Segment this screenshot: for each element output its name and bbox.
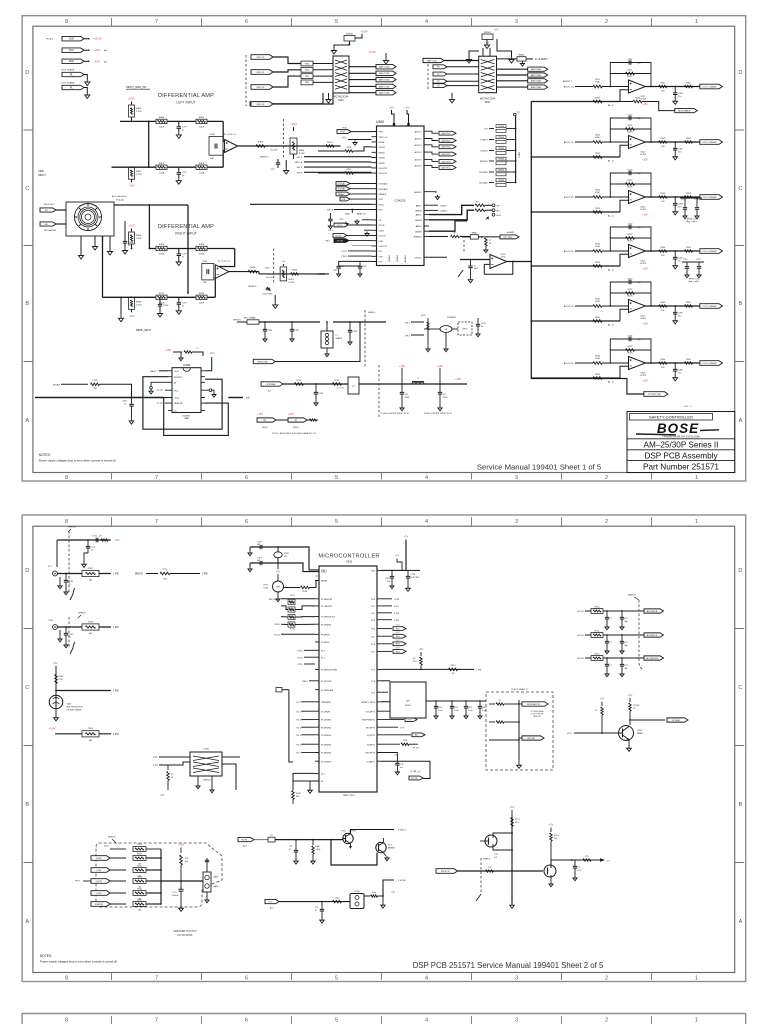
mute run wire (grey lead)	[254, 839, 268, 841]
capacitor on rail (left lower) 2n	[178, 167, 180, 172]
pullup resistor R343 (U302 left)	[288, 614, 295, 619]
svg-text:47n: 47n	[678, 151, 681, 153]
resistor R306 2.21K boxed	[131, 102, 133, 105]
svg-text:R?60: R?60	[297, 380, 303, 382]
output wire (stage 1)	[645, 86, 700, 88]
svg-text:SHIELD +: SHIELD +	[260, 157, 271, 159]
output resistor R341 100	[659, 85, 667, 87]
svg-text:R?74: R?74	[554, 835, 559, 837]
op-amp minus riser (stage 6)	[620, 366, 629, 378]
row wire to 1 PW	[57, 573, 111, 575]
svg-text:LRCKA D: LRCKA D	[479, 171, 488, 174]
svg-text:100: 100	[554, 838, 557, 840]
svg-text:C?60: C?60	[319, 393, 324, 395]
svg-text:OUT 1 L/NEAR: OUT 1 L/NEAR	[703, 85, 717, 88]
svg-text:BEAD: BEAD	[472, 232, 478, 235]
speaker row C&PW resistor	[110, 880, 126, 882]
feedback loop (stage 1)	[610, 63, 651, 87]
svg-text:+15V(R): +15V(R)	[336, 388, 344, 390]
svg-text:-15V: -15V	[94, 59, 100, 63]
svg-text:+15V: +15V	[455, 377, 462, 381]
svg-text:NC 2: NC 2	[296, 711, 301, 713]
connector J301 (top-left input)	[62, 48, 84, 52]
svg-text:VCC: VCC	[174, 390, 179, 392]
svg-text:ADJUSTABLE: ADJUSTABLE	[678, 110, 691, 113]
svg-text:C139: C139	[481, 323, 486, 325]
ground (buffer B below)	[451, 93, 453, 97]
svg-text:DC UN: DC UN	[411, 778, 418, 780]
svg-text:2.2K: 2.2K	[59, 679, 64, 681]
svg-text:C?07: C?07	[69, 634, 75, 636]
svg-text:8: 8	[65, 1018, 68, 1024]
inductor pack L306 4-bead box	[321, 331, 333, 348]
svg-text:ST/LR: ST/LR	[379, 225, 385, 227]
shield dashed line (left)	[282, 119, 284, 157]
svg-text:C341: C341	[122, 401, 128, 403]
feedback resistor R325 88.2K	[626, 292, 635, 295]
svg-text:39p: 39p	[625, 645, 628, 647]
svg-text:PICKUP TRANS: PICKUP TRANS	[67, 708, 82, 711]
svg-text:R?65: R?65	[137, 888, 143, 890]
svg-text:R?62: R?62	[137, 853, 143, 855]
wire left-out to U300	[294, 145, 341, 147]
svg-text:Avg + adj 11: Avg + adj 11	[689, 280, 701, 283]
svg-text:C343: C343	[678, 204, 684, 206]
svg-text:600: 600	[89, 740, 93, 742]
resistor R315 453K (stage 5 input)	[575, 305, 593, 307]
svg-text:DATALK: DATALK	[379, 193, 387, 196]
svg-text:NC 5: NC 5	[296, 735, 301, 737]
svg-text:NC 7: NC 7	[296, 753, 301, 755]
svg-text:C?1: C?1	[289, 846, 292, 848]
svg-text:STB: STB	[379, 199, 384, 201]
output connector OUT 1	[700, 84, 723, 89]
svg-text:OFF-Y2: OFF-Y2	[256, 87, 265, 89]
resistor R301 1.00K	[156, 165, 167, 169]
ground (C339)	[468, 278, 473, 283]
svg-text:2: 2	[605, 19, 608, 25]
svg-text:R?: R?	[270, 835, 272, 837]
connector SMP OUT (buffer B)	[423, 58, 444, 62]
svg-text:MULTIFUNCTION: MULTIFUNCTION	[67, 707, 84, 709]
resistor R309 2.21K boxed	[129, 297, 135, 309]
wire P301 to series resistor	[273, 70, 301, 72]
Q306 emitter ground	[628, 740, 630, 746]
svg-text:+AOUT4-L: +AOUT4-L	[441, 153, 450, 156]
svg-text:C332: C332	[353, 331, 358, 333]
svg-text:R333: R333	[595, 208, 601, 210]
resistor RQ2 vertical	[629, 698, 631, 702]
jack ground 2	[109, 236, 111, 249]
wire to OPT GND tag	[478, 236, 500, 238]
svg-text:2n: 2n	[128, 245, 130, 247]
CDR input jack J300 concentric circles	[75, 204, 102, 231]
capacitor C304 near jack	[124, 221, 126, 241]
row 3 stub	[489, 739, 519, 741]
svg-text:R317: R317	[159, 293, 165, 295]
svg-text:88.2K: 88.2K	[627, 296, 633, 298]
output capacitor C345 47n	[674, 305, 676, 307]
speaker row L&PW resistor	[110, 857, 126, 859]
right-side net connector boxes	[381, 598, 392, 600]
speaker connector L-PW	[91, 868, 110, 873]
wire SMP OUT to buffer A	[271, 93, 323, 104]
svg-text:1 PG: 1 PG	[400, 727, 405, 729]
rail wire (left lower)	[112, 166, 224, 168]
power label +5V (reset)	[277, 563, 279, 569]
svg-text:Pick-Up: Pick-Up	[116, 200, 124, 202]
svg-text:GEOS/PT3: GEOS/PT3	[366, 727, 375, 729]
svg-text:R309: R309	[136, 301, 142, 303]
svg-text:AIN/3V T: AIN/3V T	[563, 80, 572, 83]
svg-text:47p: 47p	[637, 227, 641, 229]
resistor R331 on SDOUT1	[345, 172, 353, 174]
output connector OUT 3	[700, 195, 723, 200]
svg-text:MP: MP	[497, 205, 501, 207]
svg-text:1.00K: 1.00K	[159, 254, 165, 256]
svg-text:XTB: XTB	[379, 256, 384, 258]
svg-text:SHT + 1: SHT + 1	[684, 406, 693, 408]
output resistor R346 100	[659, 362, 667, 364]
tag SPKR GND	[253, 359, 275, 363]
svg-text:RIGHT INPUT: RIGHT INPUT	[175, 232, 197, 236]
svg-text:6: 6	[245, 475, 248, 481]
svg-text:+15V: +15V	[128, 224, 135, 228]
wires RP300	[334, 41, 350, 48]
svg-text:U302: U302	[346, 560, 353, 564]
svg-text:Y307: Y307	[67, 704, 73, 706]
speaker row SUB/PW wire to bus	[146, 903, 161, 905]
jack terminal connector SPKR	[40, 208, 56, 212]
svg-text:100: 100	[661, 201, 665, 203]
slash marks (spdif shield)	[476, 894, 481, 901]
svg-text:AOUT2: AOUT2	[415, 138, 423, 141]
capacitor C311 (shield left)	[277, 159, 279, 162]
svg-text:PB.2: PB.2	[326, 241, 331, 243]
rail resistor R336 1.0K	[593, 377, 602, 380]
wire from J302	[84, 60, 88, 62]
svg-text:4.75K: 4.75K	[299, 153, 305, 155]
resistor R346 300 vertical (bottom left)	[292, 791, 295, 800]
svg-text:+15V RAW: +15V RAW	[265, 383, 275, 386]
res cap row EQ3-2	[381, 743, 400, 745]
svg-text:RCA 1: RCA 1	[47, 38, 54, 41]
svg-text:4n: 4n	[481, 326, 483, 328]
svg-text:SHIELD: SHIELD	[203, 780, 211, 782]
speaker row SUB/PW resistor	[110, 903, 126, 905]
output connector OUT 2	[700, 140, 723, 145]
output connector buffer B row 4	[497, 86, 528, 88]
cap C325 hanging	[87, 539, 89, 541]
svg-text:R?66: R?66	[137, 899, 143, 901]
shield dashed line 2 (sheet2)	[68, 617, 70, 648]
tag +15V RAW	[261, 382, 283, 386]
svg-text:47.5: 47.5	[515, 822, 519, 824]
svg-text:2.21K: 2.21K	[136, 111, 142, 113]
tag J-MUTE	[238, 837, 254, 841]
junction arrow (bead)	[526, 58, 533, 60]
svg-text:P3.5/SWND: P3.5/SWND	[321, 744, 332, 746]
svg-text:U305: U305	[183, 363, 191, 367]
svg-text:C?4: C?4	[400, 764, 403, 766]
feedback capacitor C321	[629, 60, 631, 65]
bias join to lower rail (left)	[131, 166, 133, 168]
svg-text:C321: C321	[333, 270, 338, 272]
jack mounting box	[66, 202, 114, 236]
wire from J301	[84, 49, 88, 51]
PS pin ground arrow	[362, 219, 372, 221]
aux buffer output to bus	[507, 261, 532, 263]
crystal wire 1 (XTAL1)	[250, 547, 319, 570]
svg-text:C?L MGE-DATA: C?L MGE-DATA	[531, 710, 545, 713]
decoupling cap C310 (RAM row)	[435, 700, 437, 702]
wire buffer B input 4	[447, 85, 479, 87]
svg-text:NC 6: NC 6	[296, 744, 301, 746]
right wire P2.5 stub	[381, 691, 388, 693]
svg-text:LF353: LF353	[640, 209, 647, 211]
svg-text:47p: 47p	[637, 282, 641, 284]
svg-text:L PW: L PW	[113, 627, 119, 629]
ground (C327)	[64, 643, 68, 648]
U300 AIN1 net labels	[429, 204, 438, 206]
svg-text:2n: 2n	[182, 257, 184, 259]
svg-text:AL-R AUX-B: AL-R AUX-B	[647, 634, 658, 637]
svg-text:C312 TEST: C312 TEST	[262, 294, 273, 296]
svg-text:OPT GND: OPT GND	[503, 237, 513, 239]
svg-text:EQ3/PT4: EQ3/PT4	[367, 735, 375, 737]
svg-text:4: 4	[425, 1018, 428, 1024]
svg-text:R334: R334	[595, 262, 601, 264]
svg-text:MMBT: MMBT	[637, 733, 644, 735]
cap C377 to ground	[574, 860, 576, 866]
svg-text:HC1 D: HC1 D	[577, 611, 584, 613]
left connector tag (loop)	[276, 688, 282, 692]
svg-text:47: 47	[69, 584, 72, 586]
title block divider below logo	[627, 438, 735, 440]
svg-text:SUB/PW: SUB/PW	[95, 904, 103, 906]
svg-text:DSP PCB 251571 Service Manual: DSP PCB 251571 Service Manual 199401 She…	[413, 961, 604, 970]
svg-text:NC?: NC?	[396, 632, 399, 634]
PT6 row wire	[381, 753, 397, 759]
svg-text:+5V: +5V	[403, 535, 408, 539]
aux row 2 output tag	[644, 633, 664, 637]
svg-text:DRW-/: DRW-/	[150, 371, 157, 373]
GEOS row stub	[381, 726, 398, 728]
svg-text:R?A: R?A	[403, 739, 407, 742]
svg-text:SD1 F: SD1 F	[297, 157, 303, 159]
svg-text:+Ck: +Ck	[282, 261, 286, 263]
slash mark row2	[70, 642, 75, 654]
svg-text:7x7: 7x7	[486, 42, 490, 44]
svg-text:+5.8V: +5.8V	[360, 30, 368, 34]
svg-text:AM–25/30P Series II: AM–25/30P Series II	[644, 441, 719, 450]
svg-text:AOUT-5 D: AOUT-5 D	[564, 305, 575, 308]
svg-text:74HC?: 74HC?	[405, 705, 413, 707]
svg-text:PLACE JUMPER WIRE PIN 16: PLACE JUMPER WIRE PIN 16	[381, 412, 410, 415]
svg-text:+5V: +5V	[276, 571, 281, 574]
loop wire down and right	[330, 839, 332, 841]
svg-text:C?24: C?24	[92, 536, 98, 538]
svg-text:L PW: L PW	[394, 599, 399, 601]
svg-text:T?S: T?S	[488, 867, 492, 869]
feedback capacitor C322	[629, 116, 631, 121]
svg-text:R?11: R?11	[163, 569, 169, 571]
svg-text:1.00K: 1.00K	[199, 127, 205, 129]
svg-text:C: C	[738, 685, 742, 691]
svg-text:+5.8V: +5.8V	[368, 50, 376, 54]
svg-text:TP A: TP A	[342, 127, 347, 130]
right long wire P2.3	[381, 668, 460, 670]
svg-text:+AOUT6-L: +AOUT6-L	[441, 167, 450, 170]
feedback loop (stage 5)	[610, 282, 651, 306]
svg-text:P3 D: P3 D	[153, 757, 158, 759]
rail wire (left upper)	[120, 120, 223, 122]
row wire 3 PW	[55, 733, 111, 735]
resistor R302 1.00K	[196, 119, 207, 123]
op-amp U301A	[225, 140, 238, 153]
svg-text:AIN3R: AIN3R	[415, 230, 422, 233]
svg-text:XTAL2: XTAL2	[321, 571, 327, 574]
svg-text:47n: 47n	[400, 767, 403, 769]
svg-text:P3EXPWM/PT2: P3EXPWM/PT2	[362, 720, 375, 722]
svg-text:BEADS: BEADS	[336, 337, 343, 340]
transistor Q303	[376, 842, 386, 852]
resistor R311 453K (stage 1 input)	[575, 86, 593, 88]
svg-text:OFF-Y1: OFF-Y1	[256, 72, 265, 74]
svg-text:5 PW: 5 PW	[394, 620, 399, 622]
RAM box near U302	[390, 682, 426, 718]
svg-text:C&PW: C&PW	[96, 881, 102, 883]
tag TC jack row	[265, 899, 279, 903]
svg-text:C: C	[25, 685, 29, 691]
svg-text:CS4225: CS4225	[395, 199, 406, 203]
svg-text:R?08: R?08	[59, 676, 65, 678]
resistor R347 57.6K vertical	[420, 652, 422, 656]
feedback capacitor C325	[629, 280, 631, 285]
cap C321 (FILT)	[337, 266, 341, 268]
ground (C310 RAM row)	[434, 714, 438, 719]
output connector buffer A row 5	[349, 92, 376, 94]
run B continues right	[359, 383, 467, 385]
svg-text:R308: R308	[136, 235, 142, 237]
svg-text:7: 7	[155, 19, 158, 25]
svg-text:A: A	[25, 418, 29, 424]
HF vertical resistor stack	[427, 318, 429, 340]
svg-text:P2.4: P2.4	[371, 681, 375, 683]
sheet 3 partial outer border	[22, 1014, 746, 1024]
reset wire with resistor	[284, 587, 301, 589]
svg-text:1K: 1K	[171, 777, 174, 779]
tag STB	[340, 197, 350, 201]
svg-text:0.1uF: 0.1uF	[468, 710, 473, 712]
ground K302	[59, 630, 61, 637]
AIN series resistor row 2	[475, 209, 485, 212]
svg-text:R?21: R?21	[595, 630, 601, 632]
feedback capacitor box C314 56P (right)	[202, 263, 214, 280]
svg-text:+5V: +5V	[404, 106, 409, 110]
svg-text:1: 1	[695, 519, 698, 525]
sheet 1 column tick marks	[112, 18, 652, 480]
svg-text:P2.1/ST-PW: P2.1/ST-PW	[321, 681, 332, 683]
caps row right of RAM box	[426, 700, 486, 702]
SDIN wires from left	[304, 156, 372, 158]
tag OPT GND	[500, 235, 519, 239]
ground (stage 3 output cap)	[673, 210, 678, 215]
svg-text:R?61: R?61	[335, 380, 341, 382]
svg-text:LNGB: LNGB	[379, 142, 385, 144]
tag DY MGE	[667, 718, 688, 722]
cap C307s2 1uF	[391, 570, 393, 572]
res R?m (opto out)	[371, 895, 378, 897]
resistor top speaker row	[110, 848, 126, 850]
svg-text:X1.7: X1.7	[321, 774, 325, 776]
svg-text:R331: R331	[595, 97, 601, 99]
svg-text:A1-3: A1-3	[270, 907, 274, 910]
tag CDOUT	[333, 234, 347, 238]
svg-text:MG: MG	[497, 210, 501, 212]
svg-text:L PG: L PG	[407, 720, 412, 722]
resistor R320 (right out 2)	[291, 273, 299, 275]
PLACE NEAR U302 dashed box	[486, 692, 553, 770]
svg-text:R?: R?	[489, 240, 491, 242]
svg-text:C3??: C3??	[182, 302, 188, 304]
svg-text:3: 3	[515, 1018, 518, 1024]
svg-text:ENC.GND D: ENC.GND D	[269, 599, 281, 601]
cap C?4 47n vertical (PT6 row)	[396, 758, 398, 763]
svg-text:HF 1: HF 1	[405, 322, 411, 324]
svg-text:88.2K: 88.2K	[627, 132, 633, 134]
svg-text:PLACE JUMPER WIRE PIN 32: PLACE JUMPER WIRE PIN 32	[424, 412, 453, 415]
svg-text:LRCKALK: LRCKALK	[379, 183, 389, 186]
cap C369 1000uF	[180, 881, 182, 889]
svg-text:C?8 1uF: C?8 1uF	[412, 747, 420, 749]
grounds FILT	[337, 272, 341, 277]
svg-text:P3E/SWND: P3E/SWND	[321, 702, 332, 704]
svg-text:BAR?: BAR?	[214, 876, 219, 879]
svg-text:LOW: LOW	[263, 587, 268, 589]
svg-text:EQ3/PT5: EQ3/PT5	[367, 744, 375, 746]
svg-text:453K: 453K	[595, 246, 600, 248]
RST pull components	[351, 210, 353, 214]
svg-text:1N: 1N	[443, 394, 446, 396]
HF shield box	[458, 322, 472, 335]
svg-text:Air Tickler/Jack: Air Tickler/Jack	[112, 195, 128, 198]
wire P300 to series resistor	[273, 57, 301, 64]
svg-text:47: 47	[91, 550, 94, 552]
svg-text:P3.5/PRG: P3.5/PRG	[321, 642, 330, 644]
sheet 1 inner border frame	[33, 26, 735, 472]
svg-text:R?20: R?20	[284, 553, 290, 555]
svg-text:2: 2	[605, 1018, 608, 1024]
svg-text:1: 1	[695, 1018, 698, 1024]
resistor R374 100 vertical	[550, 828, 552, 833]
tag SPDIF IN	[436, 869, 458, 874]
svg-text:R?03: R?03	[88, 621, 94, 623]
resistor R312 453K (stage 2 input)	[575, 141, 593, 143]
svg-text:0.1uF: 0.1uF	[438, 710, 443, 712]
svg-text:SDIN3: SDIN3	[379, 158, 386, 160]
wire upper rail to op-amp U301A	[223, 121, 224, 141]
svg-text:R330: R330	[347, 147, 353, 149]
svg-text:A1-4: A1-4	[243, 845, 247, 848]
svg-text:MCA F: MCA F	[53, 383, 60, 386]
resistor R314 453K (stage 4 input)	[575, 250, 593, 252]
svg-text:P1.6/WKUP4: P1.6/WKUP4	[321, 599, 332, 601]
vertical feed from jack (right upper)	[148, 205, 150, 249]
svg-text:453K: 453K	[595, 192, 600, 194]
svg-text:L?: L?	[417, 378, 420, 380]
svg-text:D +5-RGHT: D +5-RGHT	[535, 58, 548, 61]
